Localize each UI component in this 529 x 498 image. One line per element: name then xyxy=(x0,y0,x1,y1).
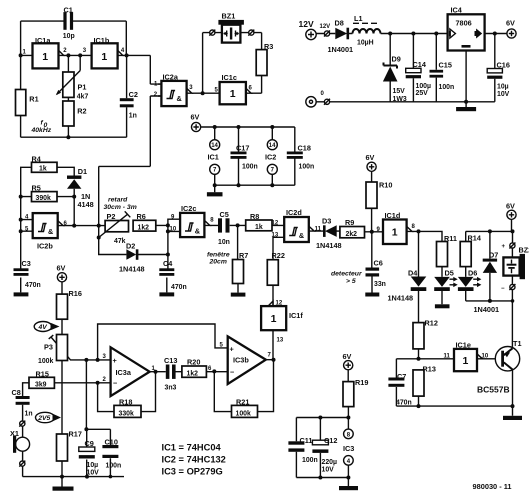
svg-text:P3: P3 xyxy=(44,342,53,351)
svg-text:D1: D1 xyxy=(78,167,87,176)
svg-text:100n: 100n xyxy=(302,457,318,464)
svg-text:IC2c: IC2c xyxy=(181,204,196,213)
svg-text:R11: R11 xyxy=(444,234,457,243)
svg-text:R22: R22 xyxy=(272,251,285,260)
svg-text:R10: R10 xyxy=(379,181,392,190)
svg-text:R15: R15 xyxy=(36,369,49,378)
svg-text:6V: 6V xyxy=(366,153,375,162)
svg-text:1n: 1n xyxy=(25,410,33,417)
svg-text:470n: 470n xyxy=(171,284,187,291)
svg-text:1k: 1k xyxy=(39,166,47,173)
svg-text:R16: R16 xyxy=(69,289,82,298)
svg-text:1n: 1n xyxy=(129,112,137,119)
svg-text:980030 - 11: 980030 - 11 xyxy=(473,482,512,491)
svg-text:D7: D7 xyxy=(489,250,498,259)
svg-text:100n: 100n xyxy=(106,463,122,470)
svg-text:R2: R2 xyxy=(77,106,86,115)
svg-text:C16: C16 xyxy=(497,61,510,70)
svg-text:detecteur: detecteur xyxy=(331,271,362,278)
svg-text:470n: 470n xyxy=(396,400,412,407)
svg-text:4k7: 4k7 xyxy=(77,93,89,100)
svg-text:1N4148: 1N4148 xyxy=(388,294,414,303)
svg-text:D2: D2 xyxy=(126,241,135,250)
svg-text:D6: D6 xyxy=(468,269,477,278)
svg-text:IC2d: IC2d xyxy=(286,208,302,217)
svg-text:C1: C1 xyxy=(64,5,73,14)
svg-text:12V: 12V xyxy=(299,19,314,29)
svg-text:C18: C18 xyxy=(298,144,311,153)
svg-text:11: 11 xyxy=(444,353,451,359)
svg-text:40kHz: 40kHz xyxy=(31,127,52,134)
svg-text:100k: 100k xyxy=(236,410,251,417)
svg-text:10µ: 10µ xyxy=(87,462,99,469)
svg-text:100n: 100n xyxy=(439,84,455,91)
svg-text:220µ: 220µ xyxy=(322,459,337,466)
svg-text:IC1c: IC1c xyxy=(222,73,237,82)
svg-text:> 5: > 5 xyxy=(346,278,356,285)
svg-text:C6: C6 xyxy=(374,259,383,268)
svg-text:+: + xyxy=(113,356,117,365)
svg-text:1N4148: 1N4148 xyxy=(316,241,342,250)
svg-text:IC2a: IC2a xyxy=(163,73,179,82)
svg-text:C13: C13 xyxy=(164,356,177,365)
svg-text:100µ: 100µ xyxy=(416,83,431,90)
svg-text:L1: L1 xyxy=(354,14,363,23)
svg-text:&: & xyxy=(48,227,54,236)
svg-text:1: 1 xyxy=(101,51,107,63)
svg-text:BZ2: BZ2 xyxy=(519,246,529,255)
svg-text:33n: 33n xyxy=(374,281,386,288)
svg-text:1k: 1k xyxy=(255,224,263,231)
svg-text:4148: 4148 xyxy=(78,200,94,209)
svg-text:6V: 6V xyxy=(506,18,515,27)
svg-text:P2: P2 xyxy=(107,212,116,221)
svg-text:IC1f: IC1f xyxy=(289,311,303,320)
svg-text:&: & xyxy=(299,231,305,240)
svg-text:IC3: IC3 xyxy=(343,444,354,453)
svg-text:R9: R9 xyxy=(345,218,354,227)
svg-text:C5: C5 xyxy=(220,210,229,219)
svg-text:10n: 10n xyxy=(218,239,230,246)
svg-text:C9: C9 xyxy=(85,439,94,448)
svg-text:R14: R14 xyxy=(468,234,482,243)
svg-text:100n: 100n xyxy=(299,163,315,170)
svg-text:C15: C15 xyxy=(439,61,452,70)
svg-text:−: − xyxy=(113,379,117,388)
svg-text:R19: R19 xyxy=(355,378,368,387)
svg-text:R18: R18 xyxy=(119,397,132,406)
svg-text:10V: 10V xyxy=(497,91,510,98)
svg-text:47k: 47k xyxy=(114,238,126,245)
svg-text:4V: 4V xyxy=(38,324,49,331)
svg-text:6V: 6V xyxy=(506,201,515,210)
svg-text:IC2: IC2 xyxy=(265,153,276,162)
svg-text:R13: R13 xyxy=(423,364,436,373)
svg-text:10V: 10V xyxy=(322,467,335,474)
svg-text:IC1b: IC1b xyxy=(94,36,110,45)
svg-text:1N4001: 1N4001 xyxy=(474,305,500,314)
svg-text:BZ1: BZ1 xyxy=(222,12,236,21)
svg-text:+: + xyxy=(230,344,234,353)
svg-text:IC3b: IC3b xyxy=(233,356,249,365)
svg-text:3n3: 3n3 xyxy=(165,385,177,392)
svg-text:−: − xyxy=(230,368,234,377)
svg-text:R21: R21 xyxy=(236,397,249,406)
svg-text:IC2b: IC2b xyxy=(37,242,53,251)
svg-text:1N4148: 1N4148 xyxy=(119,264,145,273)
svg-text:12: 12 xyxy=(272,220,279,226)
svg-text:390k: 390k xyxy=(36,195,51,202)
svg-text:3k9: 3k9 xyxy=(35,382,47,389)
svg-text:R7: R7 xyxy=(239,251,248,260)
svg-text:P1: P1 xyxy=(78,82,87,91)
svg-text:BC557B: BC557B xyxy=(477,385,510,395)
svg-text:1k2: 1k2 xyxy=(187,370,199,377)
svg-text:10: 10 xyxy=(170,227,177,233)
svg-text:30cm - 3m: 30cm - 3m xyxy=(104,204,137,211)
svg-text:D8: D8 xyxy=(335,19,344,28)
svg-text:1N4001: 1N4001 xyxy=(328,45,354,54)
svg-text:R5: R5 xyxy=(32,184,41,193)
svg-text:R17: R17 xyxy=(69,430,82,439)
svg-text:D3: D3 xyxy=(322,217,331,226)
svg-text:C4: C4 xyxy=(163,259,173,268)
svg-text:C11: C11 xyxy=(300,436,313,445)
svg-text:C14: C14 xyxy=(413,60,427,69)
svg-text:IC2 = 74HC132: IC2 = 74HC132 xyxy=(162,454,226,464)
svg-text:100k: 100k xyxy=(38,358,53,365)
svg-text:&: & xyxy=(177,94,183,103)
svg-text:R8: R8 xyxy=(250,212,259,221)
svg-text:+: + xyxy=(502,244,506,250)
svg-text:1: 1 xyxy=(463,355,469,367)
svg-text:−: − xyxy=(501,286,505,292)
svg-text:25V: 25V xyxy=(416,90,429,97)
svg-text:1: 1 xyxy=(392,227,398,239)
svg-text:100n: 100n xyxy=(242,163,258,170)
svg-text:20cm: 20cm xyxy=(209,259,227,266)
svg-text:10µ: 10µ xyxy=(497,84,509,91)
svg-text:2k2: 2k2 xyxy=(346,231,358,238)
svg-text:C17: C17 xyxy=(236,144,249,153)
svg-text:C2: C2 xyxy=(129,90,138,99)
svg-text:IC1e: IC1e xyxy=(456,341,471,350)
svg-text:IC1d: IC1d xyxy=(385,211,401,220)
svg-text:470n: 470n xyxy=(25,282,41,289)
svg-text:12: 12 xyxy=(276,300,283,306)
svg-text:15V: 15V xyxy=(393,88,406,95)
svg-text:C10: C10 xyxy=(105,437,118,446)
svg-text:6V: 6V xyxy=(191,113,200,122)
svg-text:10p: 10p xyxy=(63,33,75,40)
svg-text:1: 1 xyxy=(42,51,48,63)
svg-text:D4: D4 xyxy=(408,268,418,277)
svg-text:R1: R1 xyxy=(29,95,38,104)
svg-text:12V: 12V xyxy=(320,24,331,30)
svg-text:7806: 7806 xyxy=(456,19,472,28)
svg-text:IC3 = OP279G: IC3 = OP279G xyxy=(162,466,223,476)
svg-text:6V: 6V xyxy=(57,264,66,273)
svg-text:IC1 = 74HC04: IC1 = 74HC04 xyxy=(162,442,222,452)
svg-text:13: 13 xyxy=(277,338,284,344)
svg-text:&: & xyxy=(195,226,201,235)
svg-text:14: 14 xyxy=(211,143,218,149)
svg-text:D9: D9 xyxy=(392,55,401,64)
svg-text:R20: R20 xyxy=(187,358,200,367)
svg-text:R4: R4 xyxy=(32,154,42,163)
svg-text:330k: 330k xyxy=(119,410,134,417)
svg-text:1: 1 xyxy=(271,313,277,325)
svg-text:IC1a: IC1a xyxy=(35,36,51,45)
svg-text:10µH: 10µH xyxy=(357,40,374,47)
svg-text:retard: retard xyxy=(108,197,128,204)
svg-text:C8: C8 xyxy=(12,388,21,397)
svg-text:6V: 6V xyxy=(343,352,352,361)
svg-text:14: 14 xyxy=(269,143,276,149)
svg-text:C7: C7 xyxy=(397,372,406,381)
svg-text:IC1: IC1 xyxy=(208,153,219,162)
svg-text:2V5: 2V5 xyxy=(37,415,50,422)
svg-text:1: 1 xyxy=(230,88,236,100)
svg-text:T1: T1 xyxy=(513,339,522,348)
svg-text:1k2: 1k2 xyxy=(138,224,150,231)
svg-text:10V: 10V xyxy=(87,469,100,476)
svg-text:R6: R6 xyxy=(137,212,146,221)
svg-text:C12: C12 xyxy=(324,436,337,445)
svg-text:fenêtre: fenêtre xyxy=(207,252,230,259)
svg-text:D5: D5 xyxy=(445,269,454,278)
svg-text:R12: R12 xyxy=(425,318,438,327)
svg-text:C3: C3 xyxy=(22,259,31,268)
svg-text:R3: R3 xyxy=(264,42,273,51)
svg-text:IC3a: IC3a xyxy=(116,368,132,377)
